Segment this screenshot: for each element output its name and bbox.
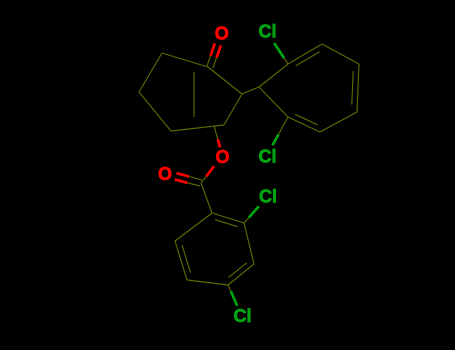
- svg-text:Cl: Cl: [234, 306, 252, 326]
- svg-text:O: O: [215, 24, 229, 44]
- svg-text:Cl: Cl: [259, 22, 277, 42]
- svg-text:Cl: Cl: [259, 147, 277, 167]
- svg-text:Cl: Cl: [259, 187, 277, 207]
- svg-text:O: O: [215, 147, 229, 167]
- svg-text:O: O: [158, 164, 172, 184]
